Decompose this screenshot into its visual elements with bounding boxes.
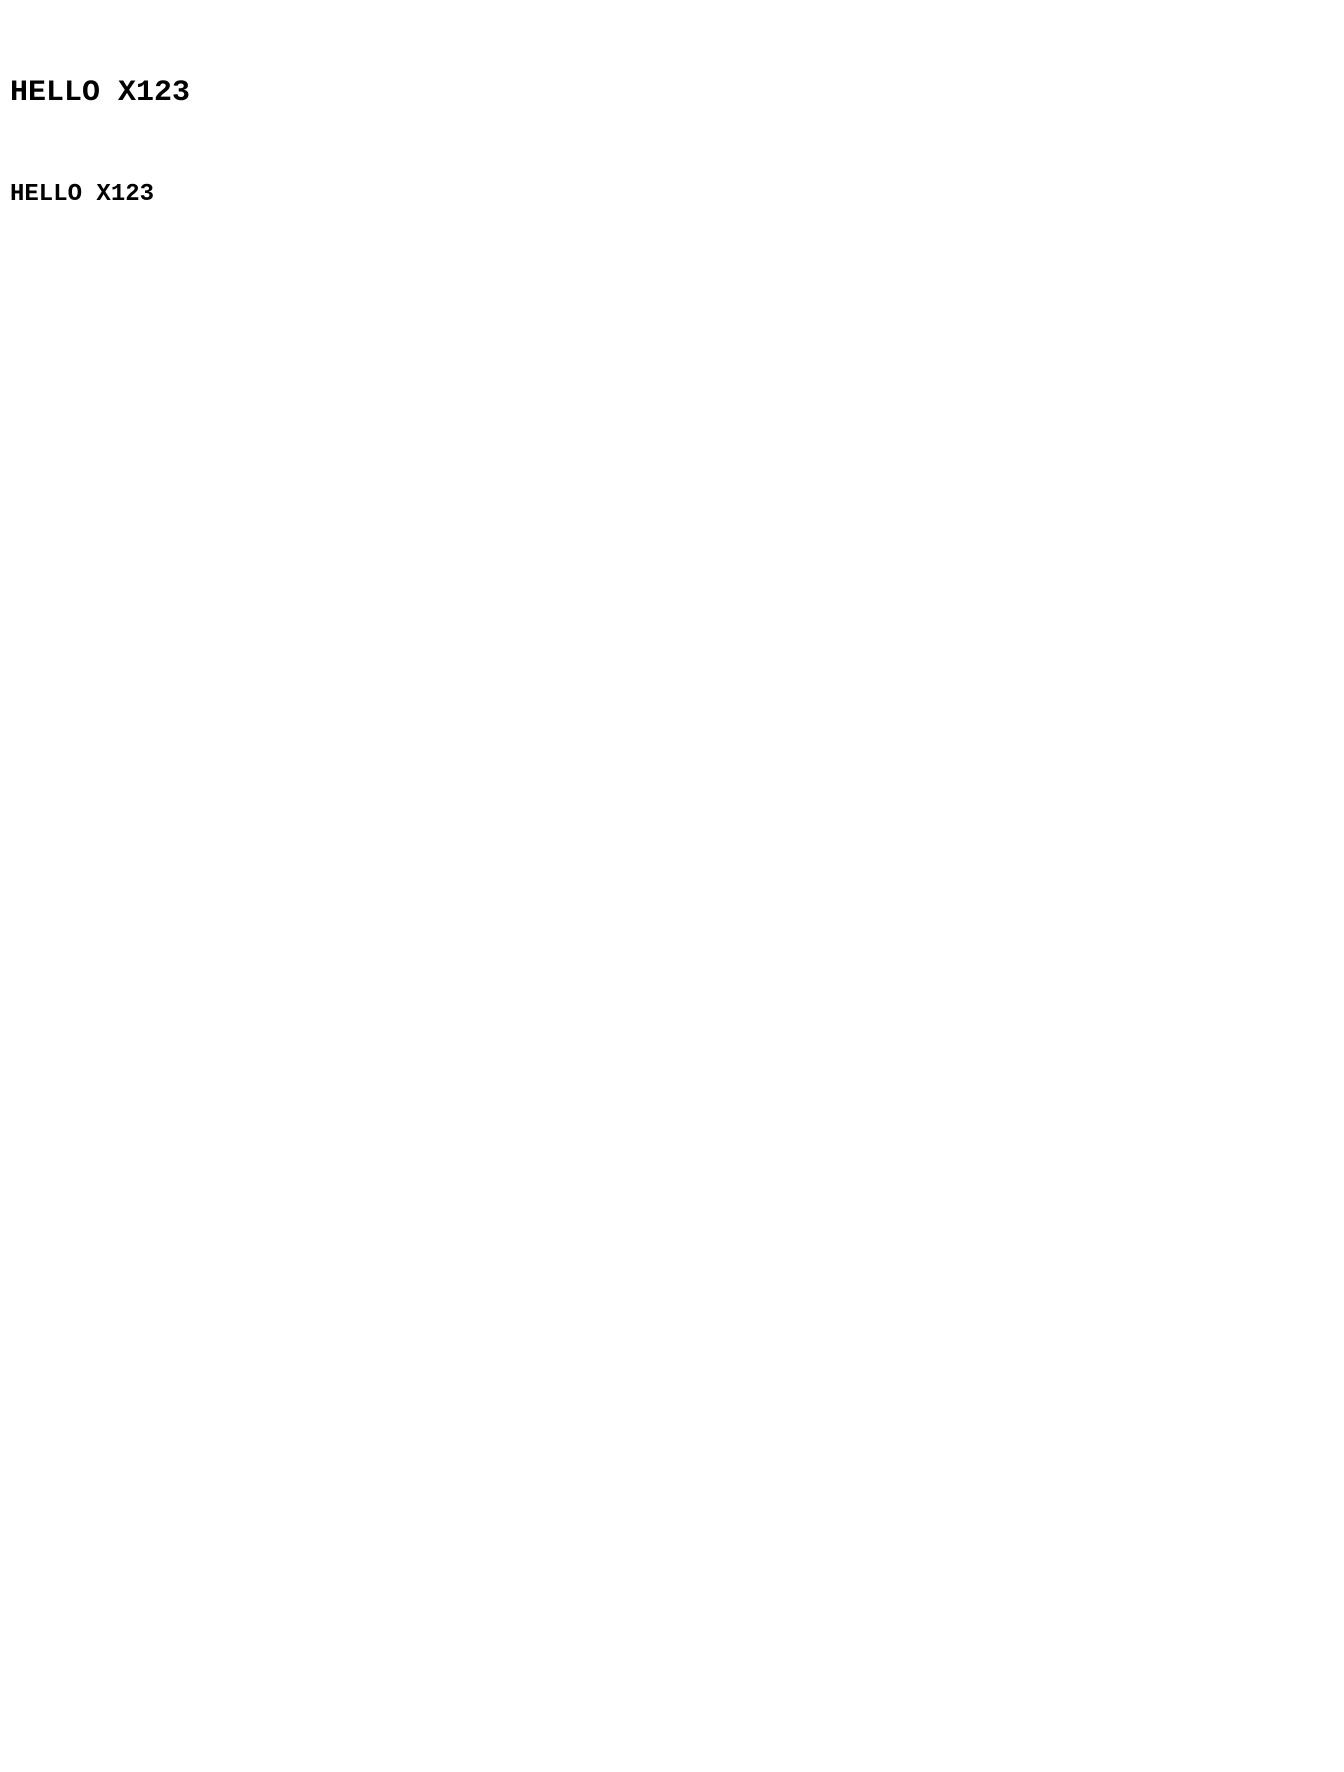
svg-text:HELLO X123: HELLO X123 [10,181,154,208]
svg-text:HELLO X123: HELLO X123 [10,76,190,110]
